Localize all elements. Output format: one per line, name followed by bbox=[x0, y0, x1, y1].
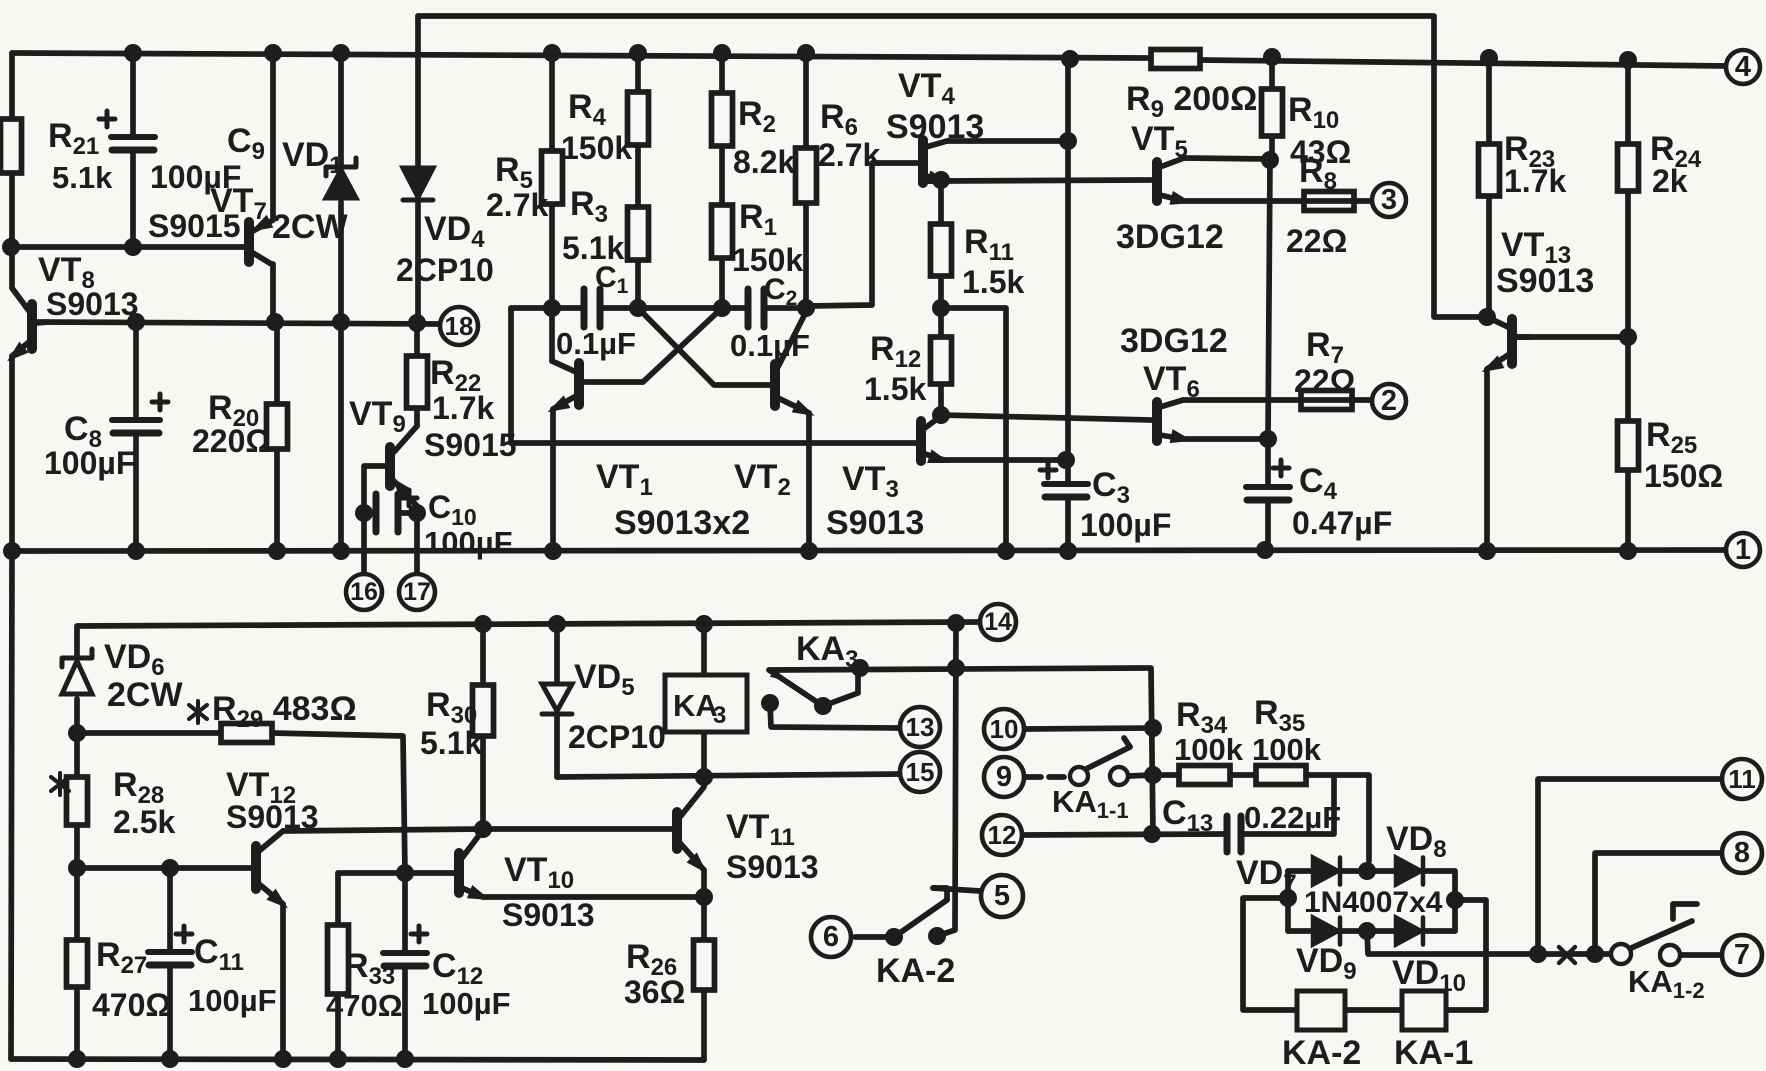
wire R20 bottom stem bbox=[274, 449, 280, 551]
svg-text:4: 4 bbox=[1735, 51, 1751, 83]
junction KA3 coil VT11 collector bbox=[695, 768, 713, 786]
junction R10 VT5 collector bbox=[1261, 151, 1279, 169]
wire R10 bottom stem bbox=[1269, 136, 1275, 160]
wire R2 top stem bbox=[719, 53, 725, 93]
wire VT6 collector through R7 to terminal 2 bbox=[1183, 397, 1372, 403]
resistor R2 bbox=[712, 93, 733, 146]
wire R6 top stem bbox=[803, 53, 809, 148]
transistor VT6 base bar bbox=[1152, 402, 1162, 441]
svg-text:6: 6 bbox=[823, 921, 839, 953]
junction R6 top bbox=[797, 44, 815, 62]
wire top line to VT13 base node bbox=[418, 16, 1484, 317]
transistor VT2 collector lead bbox=[778, 312, 806, 367]
transistor VT5 emitter lead bbox=[1160, 195, 1184, 201]
junction KA3 fixed contact bbox=[761, 694, 779, 712]
resistor R26 bbox=[694, 940, 715, 990]
wire to terminal 7 bbox=[1679, 952, 1722, 958]
switch KA1-2 right contact bbox=[1660, 945, 1680, 965]
junction R5 top bbox=[543, 44, 561, 62]
transistor VT12 collector lead bbox=[259, 831, 283, 851]
wire C12 top stem bbox=[402, 873, 408, 950]
wire R29 left lead bbox=[77, 730, 221, 736]
resistor R30 bbox=[473, 685, 494, 736]
junction VD6 R29 R28 bbox=[68, 724, 86, 742]
wire R12 top stem bbox=[938, 308, 944, 337]
junction ground left bbox=[3, 542, 21, 560]
wire VD1 cathode stem bbox=[338, 53, 344, 166]
svg-text:KA-2: KA-2 bbox=[876, 952, 955, 990]
transistor VT8 emitter lead bbox=[12, 342, 29, 356]
resistor R23 bbox=[1479, 144, 1500, 196]
svg-text:10: 10 bbox=[990, 714, 1019, 744]
transistor VT11 base bar bbox=[672, 812, 682, 849]
svg-text:S9013: S9013 bbox=[1496, 262, 1594, 300]
transistor VT6 emitter arrow bbox=[1170, 429, 1195, 448]
junction R10 top bbox=[1263, 48, 1281, 66]
transistor VT5 base bar bbox=[1152, 162, 1162, 201]
junction VT13 emitter ground bbox=[1478, 542, 1496, 560]
transistor VT12 emitter arrow bbox=[266, 889, 292, 914]
svg-text:15: 15 bbox=[906, 757, 935, 787]
terminal 9 bbox=[984, 757, 1024, 797]
junction C3 ground bbox=[1059, 542, 1077, 560]
wire top supply bus right of R9 bbox=[1200, 60, 1727, 66]
terminal 5 bbox=[981, 875, 1023, 917]
wire R5 top stem bbox=[549, 53, 555, 151]
junction R33 ground bbox=[329, 1050, 347, 1068]
transistor VT3 base bar bbox=[916, 421, 926, 461]
asterisk mark R28 bbox=[51, 773, 69, 795]
junction VT4 collector bbox=[1059, 132, 1077, 150]
terminal 10 bbox=[984, 709, 1024, 749]
terminal 3 bbox=[1372, 183, 1406, 217]
diode VD7 1N4007 bbox=[1313, 858, 1340, 885]
wire R24 bottom stem bbox=[1625, 191, 1631, 337]
junction VT12 collector R30 VT11 base bbox=[474, 820, 492, 838]
wire VT12 collector to VT11 base node bbox=[283, 829, 483, 831]
transistor VT1 emitter lead bbox=[553, 396, 576, 409]
svg-text:16: 16 bbox=[350, 578, 378, 606]
terminal 8 bbox=[1722, 833, 1762, 873]
capacitor C4 bbox=[1246, 460, 1290, 500]
wire VT3 collector to VT6 base bbox=[941, 415, 1151, 420]
junction KA-2 moving contact bbox=[885, 928, 903, 946]
svg-text:2.5k: 2.5k bbox=[113, 804, 175, 840]
transistor VT13 emitter arrow bbox=[1478, 355, 1504, 378]
svg-text:KA: KA bbox=[673, 688, 718, 723]
transistor VT1 emitter arrow bbox=[544, 395, 570, 418]
wire R30 bottom stem bbox=[480, 736, 486, 829]
terminal 15 bbox=[900, 752, 940, 792]
junction KA-2 line top bus bbox=[947, 614, 965, 632]
junction KA3 coil top bus bbox=[695, 615, 713, 633]
junction VT9 emitter C10 bbox=[408, 504, 426, 522]
terminal 17 bbox=[399, 574, 435, 610]
terminal 12 bbox=[982, 815, 1022, 855]
wire C9 top stem bbox=[130, 53, 136, 137]
svg-text:S9013: S9013 bbox=[886, 108, 984, 146]
junction KA1-1 R34 node bbox=[1144, 766, 1162, 784]
transistor VT11 emitter lead bbox=[680, 843, 704, 870]
svg-text:0.1µF: 0.1µF bbox=[730, 328, 810, 363]
wire R33 bottom stem bbox=[335, 994, 341, 1059]
svg-text:150Ω: 150Ω bbox=[1644, 458, 1723, 494]
wire R35 to bridge top node bbox=[1306, 775, 1369, 861]
wire VT5 emitter through R8 to terminal 3 bbox=[1184, 198, 1371, 204]
junction bridge left node bbox=[1279, 889, 1297, 907]
svg-text:470Ω: 470Ω bbox=[92, 987, 171, 1023]
capacitor C1 bbox=[584, 289, 600, 327]
junction KA3 blade contact bbox=[814, 697, 832, 715]
junction R6 C2 VT2 collector bbox=[797, 299, 815, 317]
svg-text:2CW: 2CW bbox=[107, 676, 183, 714]
resistor R5 bbox=[542, 151, 563, 204]
resistor R4 bbox=[628, 92, 649, 145]
junction C9 top bbox=[124, 44, 142, 62]
wire VT13 base line bbox=[1517, 334, 1626, 340]
resistor R12 bbox=[931, 337, 952, 384]
junction bridge top node bbox=[1358, 862, 1376, 880]
wire KA1-2 blade hook bbox=[1673, 904, 1697, 919]
resistor R35 bbox=[1256, 766, 1306, 785]
wire R29 right lead down to VT10 base node bbox=[272, 733, 405, 873]
transistor VT7 base bar bbox=[244, 222, 254, 262]
relay coil KA-2 bbox=[1297, 991, 1345, 1030]
wire VT7 emitter stem bbox=[270, 53, 276, 220]
wire R23 top stem bbox=[1486, 58, 1492, 144]
junction VT7 collector node-18 bbox=[266, 313, 284, 331]
wire bridge bottom-middle bbox=[1340, 928, 1396, 934]
capacitor C12 bbox=[383, 926, 427, 966]
transistor VT8 base lead bbox=[36, 322, 48, 323]
wire main vertical to C3 bbox=[1065, 58, 1071, 481]
junction main vertical top bbox=[1061, 50, 1079, 68]
wire terminal 9 dash 1 bbox=[1026, 774, 1041, 780]
wire VT3 emitter line bbox=[944, 457, 1066, 463]
capacitor C8 bbox=[112, 394, 168, 433]
wire R30 top stem bbox=[480, 624, 486, 685]
wire VT1 emitter to ground bbox=[550, 409, 556, 551]
wire VT2 base cross-coupling bbox=[638, 308, 770, 385]
svg-text:220Ω: 220Ω bbox=[192, 423, 271, 459]
junction C1 left VT1 collector bbox=[543, 299, 561, 317]
relay coil KA-1 bbox=[1402, 991, 1446, 1030]
wire to terminal 5 bbox=[933, 888, 980, 891]
svg-text:22Ω: 22Ω bbox=[1294, 363, 1355, 399]
wire KA-2 blade bbox=[894, 900, 947, 937]
transistor VT12 base bar bbox=[251, 846, 261, 889]
junction output to terminal 8 bbox=[1586, 945, 1604, 963]
wire top supply bus left of R9 bbox=[12, 53, 1151, 58]
resistor R3 bbox=[628, 207, 649, 260]
svg-text:3: 3 bbox=[1381, 184, 1397, 216]
wire VT3 base long line bbox=[511, 308, 917, 443]
svg-text:S9013: S9013 bbox=[726, 849, 819, 885]
svg-text:R9 200Ω: R9 200Ω bbox=[1126, 80, 1257, 123]
wire R34-R35 link bbox=[1230, 772, 1256, 778]
diode VD9 1N4007 bbox=[1313, 918, 1340, 945]
svg-text:100µF: 100µF bbox=[422, 986, 511, 1021]
wire bridge left node to KA-2 coil bbox=[1243, 898, 1297, 1010]
transistor VT4 emitter arrow bbox=[926, 170, 951, 190]
junction VT7 emitter bbox=[264, 44, 282, 62]
transistor VT9 emitter lead bbox=[394, 481, 417, 513]
resistor R27 bbox=[67, 940, 88, 987]
svg-text:2CW: 2CW bbox=[272, 208, 348, 246]
wire C10 left lead bbox=[364, 510, 373, 516]
wire VD1 anode stem bbox=[338, 202, 344, 551]
junction C8 node-18 bbox=[127, 313, 145, 331]
junction VT6 emitter C4 bbox=[1259, 430, 1277, 448]
wire left edge lower bbox=[9, 356, 15, 551]
svg-text:1.7k: 1.7k bbox=[432, 390, 494, 426]
wire to terminal 8 bbox=[1595, 853, 1722, 954]
wire bridge left edge bbox=[1285, 871, 1291, 931]
junction VD4 R22 node-18 bbox=[408, 314, 426, 332]
wire VT4 collector line bbox=[947, 138, 1068, 144]
wire KA-1 coil to bridge right node bbox=[1446, 900, 1486, 1010]
junction VD1 node-18 bbox=[332, 313, 350, 331]
wire KA3 switch blade bbox=[769, 670, 823, 706]
junction R30 top bus bbox=[474, 615, 492, 633]
transistor VT13 base lead bbox=[1516, 334, 1530, 340]
terminal 2 bbox=[1372, 384, 1406, 418]
wire VD6 anode stem bbox=[74, 699, 80, 733]
svg-text:S9013x2: S9013x2 bbox=[614, 504, 750, 542]
svg-text:2CP10: 2CP10 bbox=[568, 719, 666, 755]
junction VD1 top bbox=[332, 44, 350, 62]
junction KA3 line crossing bbox=[947, 659, 965, 677]
transistor VT13 collector lead bbox=[1487, 317, 1508, 327]
transistor VT2 emitter arrow bbox=[792, 400, 818, 423]
wire R25 bottom stem bbox=[1625, 470, 1631, 551]
wire C11 top stem bbox=[167, 868, 173, 950]
svg-text:0.47µF: 0.47µF bbox=[1292, 505, 1392, 541]
wire C11 bottom stem bbox=[167, 966, 173, 1059]
transistor VT4 emitter lead bbox=[926, 176, 941, 181]
svg-text:2k: 2k bbox=[1652, 163, 1688, 199]
transistor VT1 collector lead bbox=[552, 361, 576, 372]
wire R26 top stem bbox=[701, 897, 707, 940]
zener diode VD1 2CW bbox=[326, 158, 356, 198]
switch KA1-1 right contact bbox=[1110, 767, 1128, 785]
wire bridge bottom-left bbox=[1288, 928, 1313, 934]
svg-text:S9013: S9013 bbox=[826, 504, 924, 542]
junction VT3 emitter C3 bbox=[1057, 451, 1075, 469]
transistor VT2 emitter lead bbox=[778, 398, 809, 413]
wire VT6 emitter line bbox=[1184, 436, 1268, 442]
wire KA3 blade step bbox=[823, 669, 858, 706]
wire KA3 coil bottom stem bbox=[701, 732, 707, 777]
svg-text:18: 18 bbox=[445, 311, 474, 341]
wire R23 bottom stem bbox=[1486, 196, 1492, 317]
wire KA-2 blade step bbox=[933, 888, 947, 900]
transistor VT6 emitter lead bbox=[1160, 435, 1184, 439]
wire C8 top stem bbox=[133, 322, 139, 418]
wire R11 bottom stem bbox=[938, 276, 944, 308]
wire VT11 base line bbox=[483, 826, 673, 832]
resistor R6 bbox=[796, 148, 817, 203]
junction C11 ground bbox=[161, 1050, 179, 1068]
junction output to terminal 11 bbox=[1529, 945, 1547, 963]
transistor VT9 collector lead bbox=[394, 426, 417, 452]
diode VD8 1N4007 bbox=[1396, 858, 1423, 885]
junction terminal 12 C13 node bbox=[1143, 825, 1161, 843]
svg-text:5.1k: 5.1k bbox=[52, 160, 113, 195]
diode VD10 1N4007 bbox=[1396, 918, 1423, 945]
wire C9 bottom stem bbox=[130, 150, 136, 247]
wire terminal 10 line bbox=[1024, 728, 1153, 729]
wire C4 bottom stem bbox=[1265, 501, 1271, 551]
resistor R24 bbox=[1618, 144, 1639, 191]
wire C12 bottom stem bbox=[402, 968, 408, 1059]
svg-text:R29 483Ω: R29 483Ω bbox=[212, 690, 357, 733]
transistor VT8 collector lead bbox=[12, 288, 29, 311]
junction VT1 emitter ground bbox=[544, 542, 562, 560]
diode VD4 2CP10 bbox=[403, 168, 433, 200]
junction R25 ground bbox=[1619, 542, 1637, 560]
svg-text:8.2k: 8.2k bbox=[733, 144, 795, 180]
junction VT10 emitter VT11 emitter R26 bbox=[695, 888, 713, 906]
wire R33 top stem bbox=[335, 873, 341, 925]
svg-text:470Ω: 470Ω bbox=[326, 988, 403, 1023]
wire C13 right lead up to R35 line bbox=[1243, 777, 1334, 834]
wire VT11 collector stem bbox=[701, 778, 707, 786]
junction C4 ground bbox=[1256, 541, 1274, 559]
transistor VT11 emitter arrow bbox=[687, 852, 713, 878]
transistor VT10 base bar bbox=[454, 853, 464, 893]
wire terminal 12 line to C13 bbox=[1022, 834, 1224, 835]
junction R29 VT10 base C12 bbox=[396, 864, 414, 882]
resistor R33 bbox=[328, 925, 349, 994]
wire VT13 emitter to ground bbox=[1484, 369, 1490, 551]
junction R11-R12 node bbox=[932, 299, 950, 317]
wire R26 bottom stem bbox=[701, 990, 707, 1060]
wire to terminal 17 bbox=[414, 513, 420, 575]
junction R23 top bbox=[1480, 49, 1498, 67]
svg-text:9: 9 bbox=[996, 761, 1012, 793]
wire bridge top-left bbox=[1288, 868, 1313, 874]
wire KA-2 coil to KA-1 coil bbox=[1345, 1007, 1402, 1013]
svg-text:KA-1: KA-1 bbox=[1394, 1034, 1473, 1071]
wire R24 top stem bbox=[1625, 60, 1631, 144]
junction VT12 emitter ground bbox=[274, 1050, 292, 1068]
transistor VT5 collector lead bbox=[1160, 158, 1184, 167]
wire VT10 emitter line bbox=[483, 894, 704, 900]
wire C1-C2 link bbox=[600, 305, 748, 311]
svg-text:0.1µF: 0.1µF bbox=[556, 326, 636, 361]
junction R12 ground bbox=[997, 542, 1015, 560]
junction bridge right node bbox=[1446, 891, 1464, 909]
wire R5 to VT1 collector bbox=[549, 204, 555, 361]
wire R3 bottom stem bbox=[635, 260, 641, 308]
svg-text:1.5k: 1.5k bbox=[962, 264, 1024, 300]
svg-text:100µF: 100µF bbox=[424, 525, 513, 560]
wire VT11 emitter stem bbox=[701, 870, 707, 897]
capacitor C10 plus sign bbox=[401, 490, 417, 506]
transistor VT2 base bar bbox=[770, 364, 780, 406]
svg-text:2.7k: 2.7k bbox=[486, 187, 548, 223]
wire R27 top stem bbox=[74, 868, 80, 940]
transistor VT3 emitter lead bbox=[925, 454, 944, 460]
wire bridge right edge bbox=[1452, 871, 1458, 931]
resistor R1 bbox=[712, 205, 733, 258]
cross mark on output line bbox=[1559, 947, 1575, 963]
capacitor C10 bbox=[376, 494, 398, 532]
switch KA1-1 left contact bbox=[1070, 767, 1088, 785]
resistor R10 bbox=[1262, 89, 1283, 136]
wire R2-R1 link bbox=[719, 146, 725, 205]
wire C10 right lead bbox=[400, 510, 417, 516]
transistor VT11 collector lead bbox=[680, 787, 704, 817]
transistor VT8 base bar bbox=[27, 304, 37, 349]
svg-text:1: 1 bbox=[1735, 534, 1751, 566]
svg-text:1.5k: 1.5k bbox=[864, 371, 926, 407]
wire R25 top stem bbox=[1625, 337, 1631, 421]
svg-text:1.7k: 1.7k bbox=[1504, 163, 1566, 199]
terminal 11 bbox=[1722, 759, 1762, 799]
terminal 14 bbox=[980, 604, 1016, 640]
transistor VT7 emitter lead bbox=[253, 220, 273, 231]
capacitor C2 bbox=[748, 289, 764, 327]
svg-text:100k: 100k bbox=[1174, 732, 1244, 767]
junction R24 top bbox=[1619, 51, 1637, 69]
wire bridge top-right bbox=[1423, 868, 1455, 874]
wire VT12 emitter to ground bbox=[280, 904, 286, 1059]
junction R3 C1 node bbox=[629, 299, 647, 317]
junction KA-2 fixed contact bbox=[928, 927, 946, 945]
junction R27 ground bbox=[68, 1050, 86, 1068]
svg-text:0.22µF: 0.22µF bbox=[1244, 800, 1341, 835]
svg-text:KA-2: KA-2 bbox=[1282, 1034, 1361, 1071]
svg-text:5.1k: 5.1k bbox=[420, 725, 482, 761]
svg-text:S9015: S9015 bbox=[148, 208, 241, 244]
capacitor C11 bbox=[148, 926, 192, 965]
transistor VT10 emitter arrow bbox=[467, 885, 493, 907]
transistor VT4 base bar bbox=[918, 140, 928, 183]
junction R1 C2 node bbox=[713, 299, 731, 317]
junction VD1 ground bbox=[332, 542, 350, 560]
svg-text:3DG12: 3DG12 bbox=[1116, 218, 1224, 256]
wire VT7 base line bbox=[11, 244, 247, 250]
wire R28 bottom stem bbox=[74, 825, 80, 868]
transistor VT12 emitter lead bbox=[259, 884, 283, 904]
wire C8 bottom stem bbox=[133, 434, 139, 551]
transistor VT9 emitter arrow bbox=[386, 473, 411, 499]
wire R4 top stem bbox=[635, 53, 641, 92]
zener diode VD6 2CW bbox=[62, 649, 92, 694]
svg-text:100µF: 100µF bbox=[1080, 507, 1171, 543]
capacitor C13 bbox=[1227, 816, 1241, 852]
svg-text:S9013: S9013 bbox=[46, 286, 139, 322]
wire VT1 base cross-coupling bbox=[585, 308, 722, 382]
wire R11 top stem bbox=[938, 180, 944, 224]
transistor VT8 emitter arrow bbox=[2, 342, 28, 367]
transistor VT7 collector lead bbox=[253, 253, 273, 265]
svg-text:22Ω: 22Ω bbox=[1286, 223, 1347, 259]
wire KA1-2 blade bbox=[1629, 921, 1692, 949]
wire VD5 cathode stem bbox=[554, 714, 560, 777]
junction R23 VT13 collector bbox=[1478, 308, 1496, 326]
transistor VT10 emitter lead bbox=[462, 888, 483, 897]
junction VT9 base C10 bbox=[355, 504, 373, 522]
transistor VT10 collector lead bbox=[462, 830, 483, 858]
junction R11 top node bbox=[932, 171, 950, 189]
junction C9 bottom bbox=[124, 238, 142, 256]
junction R20 ground bbox=[268, 542, 286, 560]
svg-text:17: 17 bbox=[403, 578, 431, 606]
wire KA1-1 to R34 node bbox=[1128, 775, 1153, 776]
